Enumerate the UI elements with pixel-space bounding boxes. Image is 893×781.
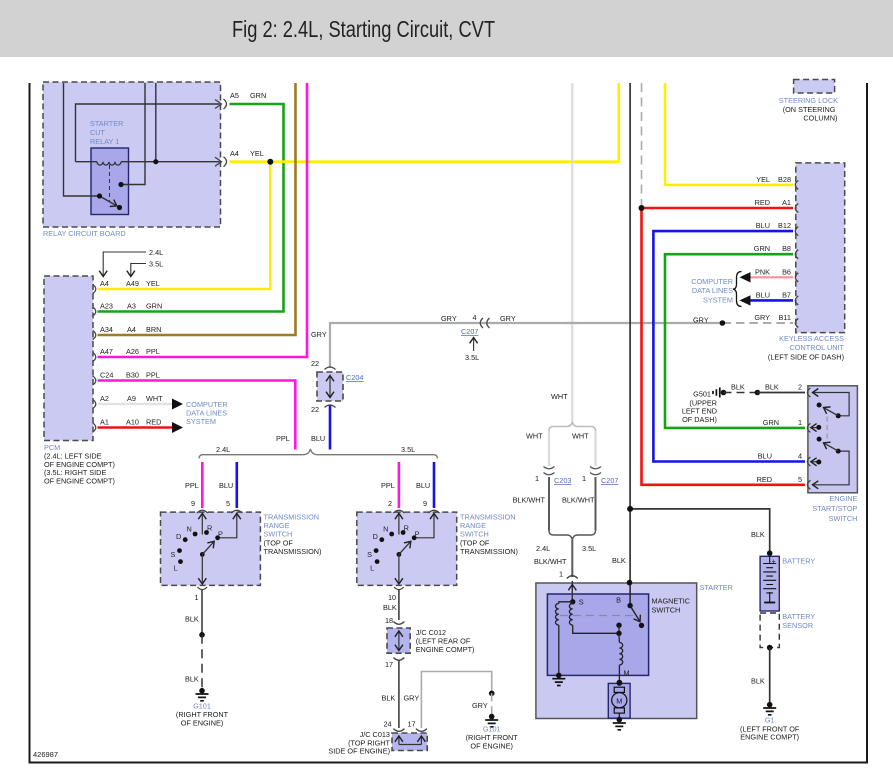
start/stop internal pin4 stub [811,461,818,463]
switch lever B [630,606,644,629]
svg-text:BLK: BLK [765,383,779,392]
svg-text:P: P [218,530,223,539]
start/stop switch element upper [817,403,841,419]
wire WHT main vertical [571,83,573,421]
wire WHT PCM A2 to arrow [98,403,173,406]
svg-text:Fig 2: 2.4L, Starting Circuit,: Fig 2: 2.4L, Starting Circuit, CVT [232,16,495,42]
svg-text:GRN: GRN [146,302,162,311]
svg-text:CONTROL UNIT: CONTROL UNIT [790,343,845,352]
switch1 output wire to pin1 [201,554,203,584]
svg-text:BLK/WHT: BLK/WHT [513,496,546,505]
svg-text:1: 1 [798,418,802,427]
svg-text:PPL: PPL [146,371,160,380]
svg-text:GRN: GRN [250,91,266,100]
svg-text:R: R [207,523,212,532]
svg-text:B12: B12 [778,221,791,230]
arrow computer data lines (WHT) [172,399,183,410]
svg-text:PPL: PPL [185,481,199,490]
svg-text:B11: B11 [779,313,791,322]
svg-text:BLK: BLK [185,615,199,624]
svg-text:BLK: BLK [185,675,199,684]
arrow computer data lines (RED) [172,422,183,433]
battery sensor box [760,612,815,648]
connector C203 inline [544,467,555,475]
switch2 output wire to pin10 [398,554,400,584]
steering lock box [779,80,838,123]
svg-text:L: L [370,563,374,572]
switch2 internal pin2 wire [398,513,400,534]
svg-text:3.5L: 3.5L [465,353,479,362]
svg-text:(ON STEERING: (ON STEERING [783,105,836,114]
svg-text:A5: A5 [230,91,239,100]
svg-text:S: S [171,550,176,559]
svg-text:A4: A4 [230,149,239,158]
svg-text:4: 4 [798,452,802,461]
junction YEL node [267,159,273,165]
svg-text:BLK: BLK [612,556,626,565]
svg-text:PPL: PPL [381,481,395,490]
svg-text:BLK: BLK [383,603,397,612]
battery [760,550,815,611]
wire BLK/WHT right [595,477,597,531]
svg-text:D: D [176,532,181,541]
switch1 internal pin5 wire to P [219,513,237,537]
switch2 lever [399,541,411,554]
magnetic switch box [547,594,690,675]
switch1 position letters [171,523,224,572]
svg-text:9: 9 [423,499,427,508]
wire BLK C012 to C013 [398,661,400,729]
svg-text:OF ENGINE): OF ENGINE) [470,741,513,750]
wire YEL branch to PCM A4 [98,162,271,289]
wire pin1 into S terminal [571,581,573,602]
wire board vertical 1 to switch pivot [64,83,98,196]
svg-text:KEYLESS ACCESS: KEYLESS ACCESS [779,334,844,343]
svg-text:426987: 426987 [33,750,58,759]
wire BLK/WHT left [548,477,550,531]
wire RED PCM A1 to arrow [98,426,173,429]
transmission range switch 1 box [161,510,322,585]
svg-text:YEL: YEL [146,279,160,288]
wire GRY dashed steering column vertical [641,83,643,206]
svg-text:BATTERY: BATTERY [782,557,815,566]
svg-text:BLU: BLU [219,481,233,490]
svg-text:GRY: GRY [500,314,516,323]
svg-text:BLU: BLU [416,481,430,490]
wire BLK/WHT merged to S pin [571,540,573,577]
svg-text:YEL: YEL [250,149,264,158]
svg-text:WHT: WHT [572,432,589,441]
junction connector C012 [385,622,474,670]
svg-text:24: 24 [384,720,392,729]
svg-text:STARTER: STARTER [700,583,733,592]
wire board vertical 3 to A4 row [155,83,157,162]
svg-text:BLK: BLK [731,383,745,392]
svg-text:BLU: BLU [756,221,770,230]
svg-text:3.5L: 3.5L [149,260,163,269]
wire BLU keyless B12 to pin4 [653,231,805,461]
start/stop pin connectors [807,388,810,489]
wire BRN PCM A34 [98,83,296,335]
svg-text:M: M [624,669,630,678]
hold-in coil branch [555,602,572,676]
svg-text:A1: A1 [782,198,791,207]
B terminal [627,580,633,586]
svg-text:C207: C207 [601,476,618,485]
svg-text:A4: A4 [100,279,109,288]
svg-text:ENGINE COMPT): ENGINE COMPT) [740,733,799,742]
svg-text:G1: G1 [765,716,775,725]
ground G101 right [466,691,519,751]
svg-text:OF ENGINE): OF ENGINE) [181,718,224,727]
svg-text:PPL: PPL [146,347,160,356]
svg-text:PNK: PNK [755,267,770,276]
svg-text:ENGINE: ENGINE [829,494,857,503]
svg-text:GRY: GRY [311,330,327,339]
keyless pin labels [754,175,791,322]
junction node on A4 row [153,159,158,164]
svg-text:C204: C204 [346,373,363,382]
relay coil [76,162,220,165]
svg-text:GRN: GRN [754,244,770,253]
start/stop internal pin2 loop [813,393,850,416]
start/stop pin number labels [798,383,802,484]
svg-text:OF DASH): OF DASH) [682,415,717,424]
wire PPL PCM A47 [98,83,308,357]
title bar [0,0,893,57]
svg-text:BATTERYSENSOR: BATTERYSENSOR [782,612,815,630]
svg-text:A26: A26 [126,347,139,356]
connector C207 inline on GRY [480,318,489,328]
svg-text:1: 1 [559,570,563,579]
wire BLK battery sensor to G1 [767,645,773,651]
svg-text:3.5L: 3.5L [582,544,596,553]
connector pin1 starter S [567,576,578,579]
wire BLK long vertical [629,83,631,606]
brace computer data lines [733,272,742,307]
svg-text:BLK/WHT: BLK/WHT [562,496,595,505]
3.5L arrow callout [131,260,163,277]
bus brace 2.4L/3.5L split [199,449,437,459]
svg-text:(LEFT SIDE OF DASH): (LEFT SIDE OF DASH) [768,352,844,361]
svg-text:G501: G501 [693,390,711,399]
switch1 internal pin9 wire [201,513,203,534]
svg-text:RELAY CIRCUIT BOARD: RELAY CIRCUIT BOARD [43,229,126,238]
ground G101 left [176,688,229,727]
M terminal node [617,680,623,686]
B terminal wire [629,583,631,606]
junction BLK node [627,506,633,512]
svg-text:+: + [772,557,776,566]
svg-text:A47: A47 [100,347,113,356]
junction connector C013 [328,729,427,756]
2.4L arrow callout [103,248,163,277]
switch2 position contacts [374,530,417,564]
PCM pin labels [100,279,163,427]
svg-text:WHT: WHT [146,394,163,403]
pull-in coil branch [569,602,619,634]
svg-text:5: 5 [798,475,802,484]
wire GRN A5 to PCM A23 [98,104,284,312]
wire PPL PCM C24 to bus [98,381,296,450]
keyless access control unit box [768,163,845,362]
switch2 position letters [367,523,420,572]
svg-text:N: N [187,524,192,533]
ground G1 [740,702,800,742]
svg-text:2: 2 [798,383,802,392]
svg-text:22: 22 [311,405,319,414]
pin A4 connector [215,157,227,167]
pin A5 connector [215,99,227,109]
svg-text:WHT: WHT [526,432,543,441]
svg-text:18: 18 [385,616,393,625]
svg-text:L: L [174,563,178,572]
start/stop switch element lower [817,437,841,454]
wire BLK branch to battery [630,509,770,553]
wire GRY crossing patch [565,322,580,324]
svg-text:A3: A3 [127,302,136,311]
starter motor box [608,680,630,718]
svg-text:SIDE OF ENGINE): SIDE OF ENGINE) [328,747,390,756]
svg-text:A34: A34 [100,325,113,334]
svg-text:22: 22 [311,359,319,368]
svg-text:17: 17 [408,720,416,729]
svg-text:RED: RED [146,418,161,427]
svg-text:C203: C203 [554,476,571,485]
wire BLU keyless B7 to arrow [748,299,793,302]
ground under motor [613,717,626,730]
wire YEL A4 main run [230,83,619,162]
wire BLK G501 to pin2 [757,392,805,394]
dashed link between switch elements [826,417,828,442]
wire BLK switch1 to ground [201,590,203,635]
svg-text:1: 1 [582,474,586,483]
wire GRN keyless B8 to pin1 [665,254,805,428]
svg-text:C24: C24 [100,371,113,380]
3.5L arrow under C207 [465,338,479,363]
svg-text:17: 17 [385,660,393,669]
wire BLU to range switch 1 [236,462,239,508]
svg-text:SWITCH: SWITCH [829,514,858,523]
svg-text:2.4L: 2.4L [149,248,163,257]
svg-text:COLUMN): COLUMN) [803,114,837,123]
relay K box [91,148,129,215]
svg-text:5: 5 [226,499,230,508]
relay switch lever [97,182,124,210]
svg-text:A1: A1 [100,418,109,427]
wire WHT branch right to C207 [594,431,596,466]
engine start/stop switch box [808,386,858,523]
PCM pin connectors [93,285,96,433]
svg-text:GRY: GRY [472,701,488,710]
keyless pin connectors [795,180,798,327]
svg-text:A49: A49 [126,279,139,288]
relay circuit board box [43,82,221,238]
start/stop internal pin1 stub [811,427,818,429]
svg-text:RED: RED [755,198,770,207]
svg-text:1: 1 [195,593,199,602]
motor feed coil [619,633,623,682]
wire GRY C204 to B11 junction [330,323,722,368]
svg-text:BLK: BLK [751,677,765,686]
svg-text:A9: A9 [127,394,136,403]
svg-text:GRY: GRY [754,313,770,322]
svg-text:A2: A2 [100,394,109,403]
wire GRY C013 to G101 [421,672,491,729]
svg-text:A4: A4 [127,325,136,334]
svg-text:2.4L: 2.4L [536,544,550,553]
wire RED keyless A1 with vertical to pin5 [642,207,794,210]
svg-text:GRY: GRY [404,694,420,703]
svg-text:BLK: BLK [751,530,765,539]
svg-text:A10: A10 [126,418,139,427]
moving contact node [616,623,621,628]
svg-text:M: M [616,697,622,706]
svg-text:B30: B30 [126,371,139,380]
svg-text:B8: B8 [782,244,791,253]
svg-text:1: 1 [535,474,539,483]
svg-text:A23: A23 [100,302,113,311]
svg-text:N: N [383,524,388,533]
relay actuation dashed [109,165,111,202]
WHT split bracket [549,422,596,432]
wire BLU to range switch 2 [433,462,436,508]
svg-text:RED: RED [757,475,772,484]
switch2 internal pin9 wire to P [416,513,434,537]
svg-text:B7: B7 [782,290,791,299]
svg-text:BLK: BLK [382,694,396,703]
wire BLU C204 to bus [329,406,332,450]
switch1 lever [202,541,214,554]
junction RED/GRY node [639,205,645,211]
svg-text:3.5L: 3.5L [401,445,415,454]
BLK/WHT merge bracket [549,531,596,541]
svg-text:B: B [616,596,621,605]
svg-text:BLK/WHT: BLK/WHT [534,557,567,566]
wire A5 row internal [76,104,220,162]
svg-text:D: D [373,532,378,541]
svg-text:P: P [415,530,420,539]
svg-text:C207: C207 [461,327,478,336]
svg-text:GRY: GRY [693,316,709,325]
svg-text:B6: B6 [782,267,791,276]
svg-text:2: 2 [388,499,392,508]
transmission range switch 2 box [357,510,518,585]
svg-text:9: 9 [191,499,195,508]
wire PPL to range switch 2 [398,462,401,508]
switch1 position contacts [177,530,220,564]
svg-text:2.4L: 2.4L [216,445,230,454]
svg-text:10: 10 [388,593,396,602]
svg-text:S: S [367,550,372,559]
svg-text:STEERING LOCK: STEERING LOCK [779,96,838,105]
wire BLK switch2 to C012 [398,590,400,621]
ground G501 [682,388,726,424]
svg-text:GRY: GRY [441,314,457,323]
svg-text:YEL: YEL [756,175,770,184]
svg-text:BLU: BLU [758,452,772,461]
svg-text:START/STOP: START/STOP [812,504,857,513]
svg-text:R: R [404,523,409,532]
wire GRY dashed to keyless B11 [722,322,793,324]
wire board vertical 2 to fixed contact [121,83,145,185]
starter assembly box [536,583,733,719]
wire PNK keyless B6 to arrow [748,276,793,278]
wire PPL to range switch 1 [201,462,204,508]
svg-text:GRN: GRN [763,418,779,427]
S terminal node [570,599,575,604]
svg-text:WHT: WHT [551,392,568,401]
svg-text:S: S [579,598,584,607]
svg-text:BLU: BLU [311,434,325,443]
svg-text:BLU: BLU [756,290,770,299]
svg-text:BRN: BRN [146,325,161,334]
internal ground magnetic switch [552,673,565,686]
PCM box [44,276,115,485]
wire BLK G501 dashed [724,392,758,394]
wire YEL to keyless B28 [665,83,793,185]
wire WHT branch left to C203 [548,431,550,466]
start/stop internal pin5 loop [813,451,850,485]
svg-text:B28: B28 [778,175,791,184]
actuation dashed line [560,615,635,617]
svg-text:PPL: PPL [276,434,290,443]
connector C207 inline lower [590,467,601,475]
svg-text:4: 4 [473,313,477,322]
connector C204 box [311,359,363,414]
